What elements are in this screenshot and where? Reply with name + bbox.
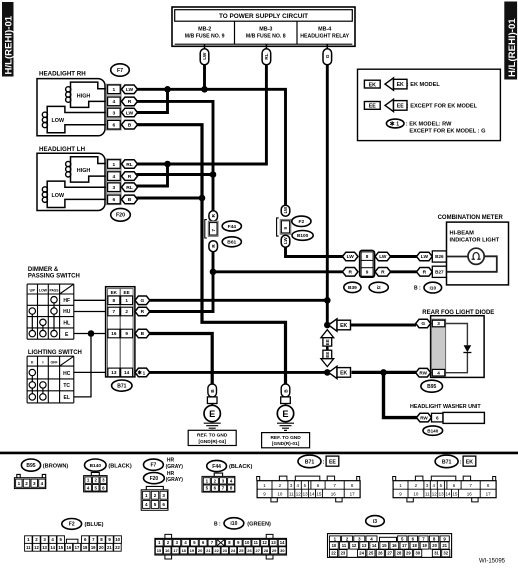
headlight LH pin 4 (R) [108, 172, 121, 181]
svg-text:10: 10 [277, 492, 283, 497]
connector i2 oval [369, 282, 388, 292]
svg-text:B61: B61 [227, 240, 236, 246]
svg-text:30: 30 [415, 551, 420, 556]
svg-text:HR: HR [167, 457, 175, 463]
svg-text:HEADLIGHT RELAY: HEADLIGHT RELAY [300, 33, 349, 39]
svg-text:F7: F7 [117, 68, 123, 74]
svg-text:13: 13 [271, 540, 276, 545]
junction washer unit tap [380, 369, 387, 376]
connector i3 pinout [328, 516, 452, 558]
svg-text:14: 14 [309, 492, 315, 497]
wire LW branch below F2/B100 to connector 8 [286, 247, 343, 257]
svg-text:1: 1 [143, 370, 146, 375]
svg-text:29: 29 [406, 551, 411, 556]
dimmer switch contacts [51, 297, 57, 303]
svg-text:17: 17 [486, 492, 492, 497]
wire R row to B27 [390, 270, 417, 273]
svg-text:B: B [141, 331, 145, 337]
rear fog diode pin 3 [432, 320, 445, 327]
page label bar right H/L(REHI)-01 [504, 2, 518, 80]
connector F2 pinout (BLUE) [25, 519, 122, 552]
connector B140 pinout (BLACK) [84, 459, 132, 492]
svg-text:i2: i2 [377, 285, 381, 291]
EE down arrow [321, 359, 334, 367]
svg-text:H/L(REHI)-01: H/L(REHI)-01 [4, 15, 15, 74]
svg-text:14: 14 [124, 370, 130, 375]
combination meter box [438, 215, 509, 285]
headlight RH pin 6 (B) [108, 120, 121, 129]
svg-text:EK: EK [397, 82, 404, 88]
wire headlight RH pin1 LW row to LW branch [137, 89, 286, 206]
svg-text:UP: UP [30, 287, 36, 292]
svg-text:B: B [128, 122, 132, 128]
svg-text:F20: F20 [150, 476, 159, 482]
dimmer and passing switch [27, 267, 80, 339]
headlight RH high beam filament [71, 82, 107, 107]
svg-text:LIGHTING SWITCH: LIGHTING SWITCH [28, 350, 82, 356]
svg-text:29: 29 [272, 548, 277, 553]
wire to headlight washer unit [384, 372, 418, 417]
svg-text:16: 16 [467, 492, 473, 497]
svg-text:LW: LW [202, 52, 208, 60]
svg-text:LW: LW [126, 87, 134, 93]
svg-text:14: 14 [445, 492, 451, 497]
svg-text:12: 12 [296, 492, 302, 497]
legend *1 note [386, 119, 404, 128]
junction LH pin1/pin3 [164, 161, 171, 168]
svg-text:16: 16 [111, 331, 117, 336]
svg-text:7: 7 [113, 309, 116, 314]
svg-text:31: 31 [434, 551, 439, 556]
svg-text:M/B FUSE NO. 9: M/B FUSE NO. 9 [185, 33, 225, 39]
svg-text:6: 6 [113, 197, 116, 203]
svg-text:EK: EK [340, 370, 347, 376]
EE up arrow [321, 330, 334, 338]
wire B71 G row to G trunk [149, 299, 327, 302]
svg-text:15: 15 [452, 492, 458, 497]
svg-text:COMBINATION METER: COMBINATION METER [438, 215, 504, 221]
svg-text:27: 27 [387, 551, 392, 556]
svg-text:30: 30 [280, 548, 285, 553]
inline connector F44/B61 (R wire) [205, 211, 242, 252]
svg-text:17: 17 [75, 545, 80, 550]
connector F2 oval [292, 216, 311, 226]
svg-text:1: 1 [18, 481, 21, 486]
svg-text:TC: TC [63, 383, 70, 389]
svg-text:M/B FUSE NO. 8: M/B FUSE NO. 8 [246, 33, 286, 39]
svg-text:H/L(REHI)-01: H/L(REHI)-01 [507, 18, 518, 77]
B71 pins 8/1 (G) [108, 296, 120, 305]
junction B wire / LH pin6 [199, 195, 206, 202]
svg-text:21: 21 [442, 543, 447, 548]
headlight LH pin 6 (B) [108, 195, 121, 204]
svg-text:EK: EK [369, 82, 377, 88]
legend box [358, 69, 501, 140]
svg-text:G: G [141, 298, 145, 304]
headlight RH [37, 71, 138, 136]
svg-text:HF: HF [63, 298, 70, 304]
svg-text:(GRAY): (GRAY) [166, 477, 184, 483]
svg-text:HL: HL [63, 321, 70, 327]
svg-text:4: 4 [437, 370, 440, 375]
svg-text:10: 10 [115, 537, 120, 542]
legend EE symbol [364, 102, 380, 110]
svg-text:G: G [421, 321, 425, 327]
wire B71 B row to ground (left) [149, 334, 212, 385]
wire EK arrow to rear fog light diode pin 4 [352, 371, 417, 374]
svg-text:1: 1 [125, 298, 128, 303]
svg-text:REF. TO GND: REF. TO GND [270, 435, 301, 441]
wire LW row to B26 [390, 255, 417, 258]
svg-text:II: II [31, 359, 33, 364]
svg-text:27: 27 [255, 548, 260, 553]
svg-text:EE: EE [329, 460, 336, 466]
svg-text:i10: i10 [230, 521, 237, 527]
svg-text:10: 10 [245, 540, 250, 545]
headlight washer unit [410, 404, 484, 424]
hi-beam indicator lamp [447, 256, 469, 258]
svg-text:LW: LW [421, 254, 429, 260]
svg-text:17: 17 [173, 548, 178, 553]
wire G trunk from headlight relay [326, 64, 329, 325]
svg-text:PASSING SWITCH: PASSING SWITCH [28, 273, 80, 279]
wire stub MB-2 to LW pill [204, 44, 206, 49]
svg-text:REAR FOG LIGHT DIODE: REAR FOG LIGHT DIODE [422, 310, 494, 316]
svg-text:EK: EK [111, 290, 118, 295]
svg-text:R: R [348, 270, 352, 276]
svg-text:11: 11 [425, 492, 430, 497]
svg-text:23: 23 [223, 548, 228, 553]
svg-text:24: 24 [231, 548, 236, 553]
svg-text:EE: EE [397, 103, 404, 109]
svg-text:: EK MODEL: : EK MODEL [407, 82, 441, 88]
svg-text:WI-15095: WI-15095 [479, 558, 506, 564]
inline connector 8/9 (B39 to i2) [342, 250, 390, 292]
wire stub MB-4 to G pill [326, 44, 328, 49]
svg-text:B140: B140 [427, 428, 438, 433]
svg-text::: : [323, 460, 325, 466]
svg-text:HEADLIGHT LH: HEADLIGHT LH [39, 146, 86, 153]
svg-text:: EK MODEL: RW: : EK MODEL: RW [406, 122, 452, 128]
svg-text:22: 22 [214, 548, 219, 553]
svg-text:11: 11 [254, 540, 259, 545]
RW pill at washer [417, 413, 432, 422]
svg-text:21: 21 [107, 545, 112, 550]
svg-text:LW: LW [379, 254, 387, 260]
svg-text:B: B [128, 197, 132, 203]
svg-text:1: 1 [113, 162, 116, 168]
svg-text:15: 15 [157, 548, 162, 553]
svg-text:20: 20 [432, 543, 437, 548]
svg-text:16: 16 [165, 548, 170, 553]
svg-text:16: 16 [67, 545, 72, 550]
connector F7 / F20 pinout (GRAY) [141, 457, 183, 510]
svg-text:16: 16 [392, 543, 397, 548]
svg-text:RW: RW [419, 370, 427, 375]
svg-text:F7: F7 [150, 463, 156, 469]
svg-text:HU: HU [63, 309, 71, 315]
svg-text:5: 5 [154, 502, 157, 507]
svg-text:RL: RL [264, 53, 270, 59]
svg-text:F44: F44 [212, 464, 221, 470]
svg-text:B95: B95 [26, 463, 35, 469]
svg-text:RL: RL [126, 162, 133, 168]
headlight RH pin 1 (LW) [108, 85, 121, 94]
svg-text:R: R [141, 309, 145, 315]
svg-text:1: 1 [396, 122, 399, 128]
svg-text:LW: LW [126, 110, 134, 116]
B71 pins 13/14 (*1) [108, 368, 120, 377]
svg-text:6: 6 [436, 415, 439, 420]
connector B95 oval [421, 380, 443, 392]
svg-text:EE: EE [325, 352, 330, 358]
connector B71 pinout (EE model) [298, 455, 339, 468]
svg-text:B26: B26 [435, 254, 444, 259]
svg-text:4: 4 [41, 481, 44, 486]
svg-text:B71: B71 [305, 459, 315, 465]
ground E (right, GND(R)-01) [277, 384, 294, 430]
svg-text:6: 6 [162, 502, 165, 507]
svg-text:[GND(R)-04]: [GND(R)-04] [198, 439, 226, 445]
svg-text:EK: EK [340, 323, 347, 329]
wire stub MB-3 to RL pill [265, 44, 267, 49]
junction R trunk / LH pin4 [210, 171, 217, 178]
svg-text:3: 3 [33, 481, 36, 486]
svg-text:HC: HC [63, 371, 71, 377]
svg-text:11: 11 [26, 545, 31, 550]
svg-text:INDICATOR LIGHT: INDICATOR LIGHT [450, 237, 500, 243]
svg-text:LOW: LOW [52, 193, 65, 199]
svg-text:13: 13 [303, 492, 309, 497]
EE stub wire [326, 346, 329, 350]
headlight RH connector pin strip [106, 84, 121, 130]
connector B39 oval [344, 282, 361, 292]
svg-text:RW: RW [420, 415, 428, 420]
svg-text:(BROWN): (BROWN) [43, 463, 69, 469]
wire lamp loop to B27 [447, 256, 497, 272]
svg-text:28: 28 [264, 548, 269, 553]
svg-text:20: 20 [198, 548, 203, 553]
legend EK symbol [364, 80, 380, 88]
svg-text:LW: LW [283, 236, 288, 243]
svg-text:OFF: OFF [51, 360, 59, 364]
svg-text:EE: EE [369, 104, 377, 110]
svg-text:16: 16 [331, 492, 337, 497]
svg-text:20: 20 [99, 545, 104, 550]
wire headlight LH pin6 B row [137, 197, 203, 200]
svg-text:10: 10 [413, 492, 419, 497]
svg-text:EE: EE [325, 339, 330, 345]
connector F44 oval [222, 221, 241, 231]
svg-text:17: 17 [350, 492, 356, 497]
EK arrow (fog pin3, EK model) [329, 319, 338, 331]
LW pill right of 8 [375, 252, 391, 261]
svg-text:15: 15 [316, 492, 322, 497]
svg-text:[GND(R)-01]: [GND(R)-01] [272, 441, 300, 447]
svg-text:9: 9 [283, 226, 288, 229]
svg-text:26: 26 [247, 548, 252, 553]
svg-text:R: R [128, 99, 132, 105]
svg-text:11: 11 [289, 492, 294, 497]
washer pin 6 [432, 413, 444, 422]
wire B71 *1 row to EK/EE junction [149, 371, 327, 374]
svg-text:: EXCEPT FOR EK MODEL: : EXCEPT FOR EK MODEL [407, 104, 478, 110]
svg-text:8: 8 [366, 254, 369, 259]
headlight RH low beam filament [47, 106, 106, 132]
svg-text:8: 8 [113, 298, 116, 303]
svg-text:MB-3: MB-3 [259, 26, 272, 32]
svg-text:i3: i3 [373, 519, 377, 525]
wire headlight LH pin3 link to pin1 row [137, 164, 168, 186]
svg-text:HIGH: HIGH [77, 94, 91, 100]
svg-text:2: 2 [125, 309, 128, 314]
svg-text:F20: F20 [116, 213, 125, 219]
wire dimmer switch E to B71 pin 16/9 [74, 333, 106, 335]
svg-text:HR: HR [167, 471, 175, 477]
svg-text:EXCEPT FOR EK MODEL : G: EXCEPT FOR EK MODEL : G [409, 129, 485, 135]
svg-text:2: 2 [25, 481, 28, 486]
rear fog diode pin 4 [432, 369, 445, 376]
svg-text:11: 11 [342, 543, 347, 548]
svg-text:B :: B : [414, 286, 421, 292]
wire color pill G (headlight relay output) [323, 49, 332, 65]
svg-text:R: R [128, 174, 132, 180]
wire headlight RH pin3 link to pin1 row [137, 89, 168, 112]
junction LW trunk / RH pin1 row [201, 86, 208, 93]
svg-text:12: 12 [352, 543, 357, 548]
svg-text:B27: B27 [435, 269, 444, 274]
svg-text:MB-4: MB-4 [318, 26, 331, 32]
svg-text:(BLACK): (BLACK) [108, 463, 131, 469]
connector B71 block [106, 287, 150, 377]
svg-text:EE: EE [124, 290, 130, 295]
svg-text:3: 3 [113, 185, 116, 191]
headlight LH connector pin strip [106, 159, 121, 205]
svg-text:21: 21 [206, 548, 211, 553]
wire LW trunk from fuse no.9 [203, 64, 206, 89]
svg-text:9: 9 [366, 270, 369, 275]
svg-text:EL: EL [64, 395, 70, 401]
svg-text:19: 19 [190, 548, 195, 553]
RW pill at fog pin 4 [416, 368, 431, 377]
wire headlight B pins to ground (right) [137, 125, 286, 385]
svg-text:12: 12 [432, 492, 438, 497]
connector B140 oval [423, 426, 443, 435]
svg-text:15: 15 [58, 545, 63, 550]
svg-text:B140: B140 [90, 463, 102, 469]
lighting switch contacts [29, 369, 35, 375]
EK arrow (fog pin4, EK model) [329, 366, 338, 378]
inline connector F2/B100 (LW wire) [277, 205, 314, 247]
headlight LH high beam filament [71, 157, 107, 182]
wire lighting switch HC to B71 pin 13/14 [74, 371, 106, 373]
ref to gnd box right [262, 433, 310, 448]
svg-text:B71: B71 [442, 459, 452, 465]
headlight RH pin 3 (LW) [108, 108, 121, 117]
R pill right of 9 [375, 268, 391, 277]
svg-text:4: 4 [113, 99, 116, 105]
svg-text:13: 13 [42, 545, 47, 550]
svg-text::: : [460, 460, 462, 466]
wire RL trunk from fuse no.8 to headlight LH pin 1 [137, 64, 267, 164]
headlight LH [37, 146, 138, 211]
svg-text:TO POWER SUPPLY CIRCUIT: TO POWER SUPPLY CIRCUIT [219, 13, 308, 20]
svg-text:E: E [282, 409, 288, 419]
R pill at B27 [417, 268, 433, 277]
connector B100 oval [292, 231, 313, 241]
junction dimmer E / EL [88, 330, 95, 337]
svg-text:F2: F2 [69, 522, 75, 528]
svg-text:23: 23 [341, 551, 346, 556]
meter pin B27 [432, 266, 446, 277]
svg-text:14: 14 [280, 540, 285, 545]
svg-text:PASS: PASS [50, 288, 60, 292]
svg-text:E: E [209, 409, 215, 419]
svg-text:26: 26 [378, 551, 383, 556]
power supply circuit box [172, 7, 355, 46]
ref to gnd box left [188, 430, 236, 445]
svg-text:3: 3 [437, 321, 440, 326]
svg-text:(GREEN): (GREEN) [247, 522, 271, 528]
headlight LH pin 3 (RL) [108, 183, 121, 192]
svg-text:i10: i10 [429, 285, 436, 291]
wire EK arrow to rear fog light diode pin 3 [351, 324, 416, 327]
junction G trunk / B71 G row [324, 297, 331, 304]
svg-text:F2: F2 [299, 219, 305, 225]
svg-text:R: R [423, 270, 427, 276]
svg-text:3: 3 [113, 110, 116, 116]
svg-text:R: R [381, 270, 385, 276]
svg-text:B71: B71 [117, 383, 126, 389]
svg-text:3: 3 [162, 493, 165, 498]
svg-text:18: 18 [412, 543, 417, 548]
svg-text:28: 28 [397, 551, 402, 556]
svg-text:HI-BEAM: HI-BEAM [450, 231, 475, 237]
pin 9 [361, 268, 373, 277]
svg-text:I: I [42, 359, 43, 364]
junction R row to meter [210, 269, 217, 276]
svg-text:MB-2: MB-2 [198, 26, 211, 32]
pin 8 [361, 252, 373, 261]
wire color pill RL (fuse no.8 output) [262, 49, 271, 65]
svg-text:B39: B39 [348, 285, 357, 291]
wire R row junction to connector 9 [213, 270, 343, 273]
junction RH pin1/pin3 [164, 86, 171, 93]
svg-text:12: 12 [262, 540, 267, 545]
svg-text:19: 19 [422, 543, 427, 548]
svg-text:18: 18 [83, 545, 88, 550]
svg-text:(BLUE): (BLUE) [85, 522, 104, 528]
junction G trunk / EK arrow (fog pin3) [324, 322, 331, 329]
wire dimmer switch HF to B71 pin 8/1 [74, 299, 106, 301]
svg-text:HEADLIGHT RH: HEADLIGHT RH [39, 71, 86, 78]
B71 pins 16/9 (B) [108, 329, 120, 338]
wire headlight RH pin4 R row down [137, 101, 214, 211]
svg-text:2: 2 [154, 493, 157, 498]
svg-text:DIMMER &: DIMMER & [28, 267, 59, 273]
connector B61 oval [222, 237, 241, 247]
B71 pins 7/2 (R) [108, 307, 120, 316]
connector F7 oval [111, 64, 130, 76]
svg-text:13: 13 [111, 370, 117, 375]
diode symbol [446, 324, 468, 346]
svg-text:LOW: LOW [52, 118, 65, 124]
svg-text:10: 10 [332, 543, 337, 548]
svg-text:F44: F44 [228, 224, 237, 230]
svg-text:G: G [325, 54, 331, 58]
svg-text:1: 1 [145, 493, 148, 498]
headlight LH low beam filament [47, 181, 106, 207]
